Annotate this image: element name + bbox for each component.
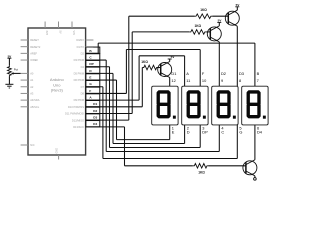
svg-text:A: A [186, 71, 189, 76]
svg-text:Arduino: Arduino [50, 77, 65, 82]
svg-text:12: 12 [171, 78, 175, 83]
svg-text:D1: D1 [93, 102, 97, 106]
svg-text:5V: 5V [171, 55, 175, 59]
svg-text:8: 8 [239, 78, 241, 83]
svg-text:E: E [89, 75, 91, 79]
svg-text:DP: DP [202, 130, 208, 135]
svg-text:G: G [239, 130, 242, 135]
svg-text:B: B [257, 71, 260, 76]
svg-text:3V3: 3V3 [45, 31, 48, 36]
svg-text:9: 9 [221, 78, 223, 83]
svg-text:F: F [89, 89, 91, 93]
svg-text:D2: D2 [93, 109, 97, 113]
svg-text:D1: D1 [171, 71, 176, 76]
svg-text:1KΩ: 1KΩ [198, 170, 205, 174]
svg-text:11: 11 [186, 78, 190, 83]
svg-text:1KΩ: 1KΩ [200, 8, 207, 12]
svg-text:E: E [172, 130, 175, 135]
svg-text:7: 7 [257, 78, 259, 83]
svg-text:D: D [187, 130, 190, 135]
svg-text:D3: D3 [239, 71, 244, 76]
svg-text:Uno: Uno [53, 82, 61, 87]
svg-text:(Rev3): (Rev3) [51, 88, 64, 93]
svg-text:D3: D3 [93, 116, 97, 120]
svg-text:GND: GND [56, 148, 59, 154]
svg-text:DP: DP [89, 62, 93, 66]
svg-text:D2: D2 [221, 71, 226, 76]
svg-text:5V: 5V [236, 3, 240, 7]
svg-text:D4: D4 [93, 122, 97, 126]
svg-text:1KΩ: 1KΩ [194, 24, 201, 28]
svg-text:5V: 5V [59, 31, 62, 34]
svg-text:VIN: VIN [72, 31, 75, 35]
svg-text:5V: 5V [218, 19, 222, 23]
svg-text:C: C [221, 130, 224, 135]
svg-text:Pot: Pot [14, 67, 19, 71]
svg-text:1KΩ: 1KΩ [141, 60, 148, 64]
svg-text:D4: D4 [257, 130, 263, 135]
